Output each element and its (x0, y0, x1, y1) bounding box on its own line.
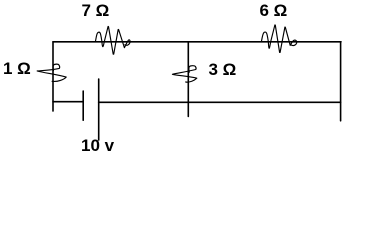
label 7 ohm (82, 1, 110, 21)
wire top horizontal (53, 41, 341, 43)
wire bottom left segment (53, 101, 83, 103)
wire bottom right segment (99, 101, 341, 103)
label 1 ohm (3, 59, 31, 79)
label 6 ohm (260, 1, 288, 21)
label 10 v (81, 136, 114, 156)
resistor R1 scribble (7 ohm) (95, 26, 130, 54)
wire right vertical (340, 42, 342, 121)
wire middle vertical (187, 42, 189, 117)
resistor R4 scribble (3 ohm) (172, 66, 196, 82)
battery positive plate (long) (98, 79, 100, 140)
battery negative plate (short) (82, 91, 84, 120)
wire left vertical (52, 42, 54, 111)
label 3 ohm (209, 60, 237, 80)
resistor R2 scribble (6 ohm) (261, 25, 296, 53)
resistor R3 scribble (1 ohm) (37, 64, 66, 81)
